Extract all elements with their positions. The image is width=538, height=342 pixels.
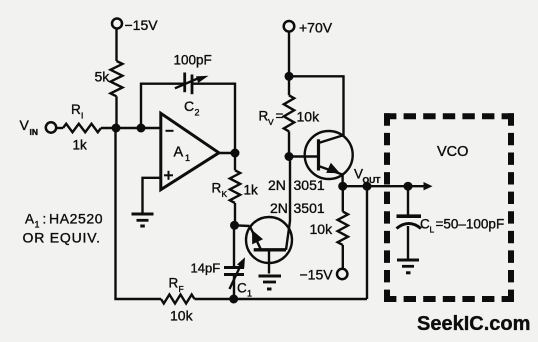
svg-text:1k: 1k	[244, 183, 259, 198]
ground G1 dot	[140, 225, 145, 228]
svg-text:C: C	[237, 281, 247, 296]
wire VOUT node to 10k load	[342, 186, 344, 211]
wire node C to Q2 emitter	[235, 224, 250, 227]
wire node A down to bottom feedback rail	[116, 128, 162, 299]
wire corner up to VOUT line	[366, 186, 368, 299]
node dot E Q1 base	[285, 152, 294, 161]
svg-text:F: F	[179, 284, 184, 294]
resistor R1 1k	[63, 124, 101, 132]
svg-text:I: I	[81, 111, 83, 121]
wire RK to node C	[234, 203, 236, 225]
svg-text:K: K	[222, 189, 228, 199]
VCO dashed box	[384, 113, 514, 302]
capacitor C1 14pF plates	[224, 266, 244, 269]
ground G3 dot	[406, 271, 411, 274]
wire node D to Q1 collector	[289, 76, 344, 135]
svg-text:R: R	[71, 102, 81, 117]
svg-text:1: 1	[35, 220, 40, 230]
node dot D +70V branch	[285, 72, 294, 81]
svg-text:=50–100pF: =50–100pF	[436, 217, 505, 232]
node dot VOUT emitter	[338, 182, 347, 191]
wire C2 to opamp output rail	[192, 84, 235, 153]
svg-text:C: C	[184, 98, 194, 114]
resistor RF 10k	[161, 295, 195, 304]
svg-text:R: R	[259, 109, 269, 124]
wire 5k to node A	[115, 96, 117, 128]
node dot opamp output	[231, 149, 240, 158]
wire VOUT node to CL	[407, 186, 409, 214]
svg-text:C: C	[420, 217, 430, 232]
svg-text:14pF: 14pF	[191, 261, 221, 276]
wire 10k to -15V terminal	[342, 245, 344, 268]
wire opamp plus input to ground	[143, 178, 161, 213]
svg-text:A: A	[174, 145, 184, 161]
ground G1 under opamp	[132, 213, 154, 216]
node dot CL top	[404, 182, 413, 191]
svg-text:V: V	[268, 117, 274, 127]
ground G2 dot	[267, 288, 272, 291]
svg-text:1k: 1k	[73, 138, 88, 153]
wire node D to RV	[288, 76, 290, 95]
resistor RV 10k	[284, 95, 294, 131]
node dot C RK bottom	[230, 221, 239, 230]
wire output node to RK	[234, 153, 236, 170]
svg-text:=: =	[276, 109, 284, 124]
wire bottom rail RF to corner	[195, 298, 368, 300]
svg-text:2N: 2N	[268, 177, 286, 193]
ground G2 under Q2	[259, 275, 282, 278]
node dot VOUT feedback	[363, 182, 372, 191]
wire opamp output	[219, 152, 235, 154]
wire node C to C1	[233, 225, 235, 266]
svg-text:+70V: +70V	[299, 20, 333, 36]
capacitor C2 arrowhead	[196, 76, 209, 83]
svg-text:V: V	[20, 117, 30, 133]
svg-text:R: R	[212, 181, 222, 196]
svg-text:3051: 3051	[294, 177, 325, 193]
terminal +70V	[284, 21, 295, 32]
svg-text:1: 1	[185, 153, 190, 163]
svg-text:10k: 10k	[170, 308, 194, 324]
svg-text:OUT: OUT	[363, 175, 382, 185]
terminal -15V bottom	[337, 269, 347, 279]
op-amp plus input sign	[164, 174, 173, 176]
terminal -15V top	[112, 19, 122, 29]
capacitor C1 arrowhead	[237, 257, 245, 268]
wire Q1 emitter to VOUT node	[341, 174, 343, 186]
op-amp minus input sign	[166, 130, 174, 132]
svg-text:−15V: −15V	[125, 17, 159, 33]
terminal VIN	[46, 122, 56, 132]
svg-text:HA2520: HA2520	[49, 211, 103, 227]
wire VIN to R1	[56, 127, 63, 129]
capacitor C2 100pF plates	[183, 73, 186, 93]
svg-text:R: R	[169, 276, 179, 291]
wire node E down to Q2 collector	[289, 157, 291, 222]
svg-text::: :	[43, 212, 47, 227]
svg-text:VCO: VCO	[437, 144, 468, 160]
svg-text:L: L	[430, 225, 435, 235]
capacitor C2 variable arrow	[175, 78, 200, 89]
svg-text:SeekIC.com: SeekIC.com	[417, 313, 530, 335]
op-amp A1 triangle	[161, 113, 219, 189]
svg-text:2N: 2N	[270, 200, 288, 216]
wire node B up to C2 feedback rail	[141, 84, 184, 128]
capacitor CL plates	[397, 214, 422, 218]
resistor RK 1k	[230, 170, 240, 203]
ground G3 under CL	[397, 259, 419, 262]
svg-text:A: A	[25, 212, 34, 227]
svg-text:100pF: 100pF	[174, 53, 212, 68]
wire node E to Q1 base	[289, 155, 319, 157]
wire Q2 base to ground	[268, 250, 270, 274]
svg-text:10k: 10k	[297, 109, 321, 125]
svg-text:2: 2	[195, 108, 200, 118]
wire CL to ground	[407, 226, 409, 259]
transistor Q2 2N3501	[246, 217, 292, 263]
wire VOUT rail with arrow	[343, 185, 424, 187]
svg-text:OR EQUIV.: OR EQUIV.	[23, 230, 101, 246]
resistor 5k	[111, 61, 123, 96]
wire -15V to 5k	[115, 28, 117, 61]
svg-text:1: 1	[247, 289, 252, 299]
svg-text:5k: 5k	[95, 69, 111, 85]
wire R1 to node A and opamp inverting input	[101, 127, 161, 129]
capacitor C1 variable arrow	[230, 263, 243, 290]
transistor Q1 2N3051	[305, 131, 353, 179]
resistor 10k load	[338, 212, 348, 245]
node dot A	[112, 124, 121, 133]
wire C1 to bottom rail	[233, 276, 235, 299]
wire RV to node E	[288, 131, 290, 156]
node dot C1 bottom rail	[229, 295, 238, 304]
svg-text:3501: 3501	[294, 200, 325, 216]
wire +70V down to node D	[288, 32, 290, 77]
svg-text:IN: IN	[30, 127, 39, 137]
node dot B	[137, 124, 146, 133]
svg-text:10k: 10k	[310, 221, 334, 237]
svg-text:−15V: −15V	[300, 267, 334, 283]
